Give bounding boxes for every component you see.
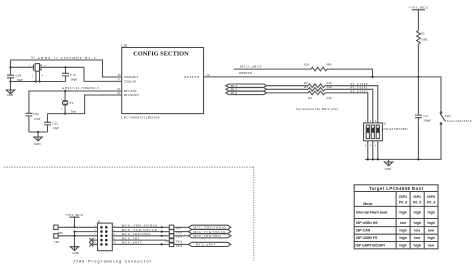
- svg-text:18pF: 18pF: [70, 77, 77, 81]
- svg-text:5: 5: [370, 145, 372, 148]
- svg-text:Internal Flash boot: Internal Flash boot: [356, 211, 388, 215]
- svg-text:Tcm: Tcm: [71, 110, 77, 114]
- wire R3 to DIP switch: [325, 89, 373, 123]
- svg-text:P0_4: P0_4: [427, 201, 435, 205]
- svg-text:TP5: TP5: [54, 240, 60, 244]
- svg-text:C20: C20: [33, 112, 39, 116]
- node MCU_TMS/SWDIO net flag: [189, 225, 231, 229]
- svg-text:high: high: [427, 211, 434, 215]
- boot mode table Target LPC54608 Boot: [354, 185, 438, 249]
- svg-text:100K: 100K: [421, 37, 429, 41]
- svg-text:2.2k: 2.2k: [326, 85, 332, 89]
- wire RTCXOUT net: Y2 bottom to MCU pin 139: [65, 95, 122, 114]
- pin 140 RTCXIN: [116, 88, 137, 93]
- svg-text:Target LPC54608 Boot: Target LPC54608 Boot: [369, 186, 424, 191]
- pin 47 XTALIN: [118, 79, 137, 84]
- svg-text:low: low: [428, 229, 434, 233]
- resistor R3 2.2k: [304, 85, 332, 91]
- pin 4 J2 MCU_TCK/SWCLK: [112, 228, 169, 232]
- svg-text:C19: C19: [70, 73, 76, 77]
- svg-text:P0_5: P0_5: [413, 201, 421, 205]
- svg-text:P0_6: P0_6: [399, 201, 407, 205]
- pin 6 J2 MCU_TDO/SWO: [112, 232, 169, 236]
- wire XTALOUT net: C18 top to MCU pin 46: [11, 60, 122, 77]
- power +3V3_MCU (JTAG): [65, 213, 84, 227]
- wire RTCXIN net: C20 to MCU pin 140: [29, 91, 122, 113]
- wire nRST to flag: [174, 243, 189, 245]
- svg-text:ISP1: ISP1: [413, 195, 421, 199]
- node +3V3 junction on pin1 wire: [73, 226, 75, 228]
- node P0_4 net flag: [226, 84, 267, 88]
- ground GND (JTAG): [70, 247, 79, 255]
- node junction TMS: [161, 226, 163, 228]
- wire ground rail C20 to C22: [29, 131, 48, 133]
- node TP9 test point: [169, 225, 181, 230]
- resistor R4 2.2k: [308, 91, 332, 100]
- wire TDO to flag: [174, 235, 189, 237]
- node P0_6 net flag: [226, 91, 267, 95]
- wire TMS to flag: [174, 226, 189, 228]
- svg-text:JTAG Programming Connector: JTAG Programming Connector: [73, 259, 152, 264]
- transistor SW2 push button 4342124023816: [440, 112, 472, 125]
- svg-text:SW2: SW2: [445, 114, 452, 118]
- ground GND (crystal section): [6, 82, 14, 98]
- wire C22 to Y2 bottom: [48, 113, 66, 115]
- svg-text:XTALIN: XTALIN: [124, 80, 137, 84]
- svg-text:12pF: 12pF: [34, 117, 41, 121]
- pin 46 XTALOUT: [118, 74, 139, 79]
- svg-text:12pF: 12pF: [52, 126, 59, 130]
- node TP6 test point: [54, 225, 64, 235]
- svg-text:low: low: [400, 221, 406, 225]
- wire TP6 to J2 pin 1: [58, 226, 97, 228]
- svg-text:Set nearest the MCU pins: Set nearest the MCU pins: [296, 107, 339, 111]
- svg-text:ABS07-32.768KHZ-T: ABS07-32.768KHZ-T: [62, 86, 99, 90]
- svg-text:2: 2: [61, 97, 63, 100]
- svg-text:GND: GND: [72, 251, 79, 255]
- resistor R2 2.2k: [304, 81, 332, 87]
- svg-text:U2B: U2B: [121, 44, 127, 48]
- svg-text:high: high: [427, 236, 434, 240]
- svg-text:Y1: Y1: [31, 56, 35, 60]
- svg-text:ISP0: ISP0: [427, 195, 435, 199]
- svg-text:MCU_nRST: MCU_nRST: [122, 241, 142, 245]
- ground GND (RTC section): [34, 132, 42, 146]
- svg-text:high: high: [414, 211, 421, 215]
- crystal Y1 ABM8-12.0000MHZ-B2-T: [29, 56, 96, 78]
- wire R20 to RESETN junction: [327, 69, 373, 77]
- node MCU_TDO/SWO net flag: [189, 234, 231, 238]
- svg-text:ISP UART/I2C/SPI: ISP UART/I2C/SPI: [356, 244, 385, 248]
- capacitor C21 100nF: [415, 114, 431, 159]
- node TP10 test point: [169, 229, 183, 234]
- node junction pin5: [73, 235, 75, 237]
- svg-text:MCU_TDO/SWO: MCU_TDO/SWO: [194, 234, 222, 238]
- wire R4 to DIP switch: [325, 93, 368, 123]
- svg-text:high: high: [399, 244, 406, 248]
- pin 9 J2 no connect: [89, 242, 97, 247]
- svg-text:R4: R4: [308, 96, 312, 100]
- crystal Y2 ABS07-32.768KHZ-T: [61, 86, 99, 114]
- pin 10 J2 MCU_nRST: [112, 241, 169, 245]
- svg-text:ISP2: ISP2: [399, 195, 407, 199]
- svg-text:R3: R3: [304, 85, 308, 89]
- svg-text:LPC54608J512BD208: LPC54608J512BD208: [121, 115, 159, 119]
- svg-text:NDA03H3SBD: NDA03H3SBD: [383, 127, 408, 131]
- svg-text:2.2k: 2.2k: [326, 96, 332, 100]
- wire dashed section border right: [253, 167, 255, 260]
- svg-text:GND: GND: [385, 167, 392, 171]
- node DIP pin 4 on rail: [377, 158, 379, 160]
- svg-text:high: high: [399, 229, 406, 233]
- node TP11 test point: [169, 234, 182, 239]
- node RTCXOUT junction at Y2 bottom: [64, 113, 66, 115]
- svg-text:high: high: [414, 244, 421, 248]
- node GND junction below C18: [9, 80, 11, 82]
- svg-text:1: 1: [61, 107, 63, 110]
- op-amp J2 JTAG connector: [98, 219, 113, 250]
- wire DIP switch pins to ground rail: [368, 141, 378, 160]
- node MCU_nRST net flag: [189, 242, 231, 246]
- svg-text:CONFIG SECTION: CONFIG SECTION: [133, 50, 189, 57]
- svg-text:low: low: [414, 229, 420, 233]
- svg-text:+3V3_MCU: +3V3_MCU: [65, 213, 84, 217]
- svg-text:4: 4: [375, 145, 377, 148]
- svg-text:high: high: [399, 236, 406, 240]
- svg-text:ISP USB1 HS: ISP USB1 HS: [356, 221, 378, 225]
- resistor R5 100K: [417, 31, 429, 44]
- wire XTALOUT branch to crystal Y1 pin 1: [11, 66, 34, 68]
- svg-text:100nF: 100nF: [423, 118, 431, 122]
- node junction TDO: [161, 235, 163, 237]
- node ground junction RTC: [37, 131, 39, 133]
- wire R2 to DIP switch: [325, 86, 378, 123]
- svg-text:4342124023816: 4342124023816: [445, 119, 472, 123]
- op-amp U2B CONFIG SECTION block (MCU LPC54608J512BD208): [121, 44, 203, 120]
- svg-text:Y2: Y2: [69, 101, 73, 105]
- svg-text:TP11: TP11: [176, 235, 183, 239]
- svg-text:S1: S1: [383, 122, 387, 126]
- pin 139 RTCXOUT: [116, 92, 139, 97]
- pin 100 RESETN: [184, 74, 210, 79]
- node DIP pin 5 on rail: [372, 158, 374, 160]
- node junction MCU_nRST on RESETN: [371, 76, 373, 78]
- svg-text:P0_6/ISP2: P0_6/ISP2: [351, 89, 369, 93]
- svg-text:6: 6: [365, 145, 367, 148]
- svg-text:GND: GND: [34, 142, 41, 146]
- node Y1 pin4 on ground rail: [38, 80, 40, 82]
- svg-text:MCU_nRST: MCU_nRST: [196, 243, 216, 247]
- wire TP5 to J2 pin 5: [58, 235, 97, 237]
- node P0_5 net flag: [226, 88, 267, 92]
- ground GND (ISP section): [384, 159, 392, 171]
- wire ISP2 row: [267, 92, 309, 94]
- node junction pin3: [73, 231, 75, 233]
- svg-text:ABM8-12.0000MHZ-B2-T: ABM8-12.0000MHZ-B2-T: [38, 56, 96, 60]
- svg-text:low: low: [414, 236, 420, 240]
- wire MCU_nRST net: [234, 68, 311, 70]
- wire ground drop JTAG: [74, 232, 76, 251]
- node MCU_TCK/SWCLK net flag: [189, 230, 231, 234]
- capacitor C20 12pF: [25, 112, 40, 132]
- node C21 on rail: [417, 158, 419, 160]
- capacitor C22 12pF: [44, 114, 59, 132]
- wire XTALIN net: Y1 pin3 to MCU pin 47: [41, 67, 122, 81]
- svg-text:RESETN: RESETN: [239, 71, 252, 75]
- svg-text:GND: GND: [7, 93, 14, 97]
- capacitor C18 18pF: [7, 74, 23, 82]
- node TP13 test point: [169, 242, 183, 248]
- svg-text:0R0: 0R0: [326, 63, 332, 67]
- svg-text:high: high: [427, 221, 434, 225]
- svg-text:2: 2: [32, 74, 34, 77]
- svg-text:XTALOUT: XTALOUT: [124, 75, 138, 79]
- power +3V3_MCU (reset pull-up): [409, 5, 429, 30]
- svg-text:Mode: Mode: [363, 202, 372, 206]
- svg-text:high: high: [414, 221, 421, 225]
- svg-text:R5: R5: [421, 31, 425, 35]
- svg-text:ISP CAN: ISP CAN: [356, 229, 371, 233]
- svg-text:C22: C22: [52, 121, 58, 125]
- wire R5 to RESETN and C21: [417, 44, 419, 115]
- node junction nRST: [161, 243, 163, 245]
- wire Y1 case pins 2,4 to ground rail: [36, 71, 40, 81]
- node RTCXIN junction at Y2 top: [64, 90, 66, 92]
- node DIP pin 6 on rail: [367, 158, 369, 160]
- pin 2 J2 MCU_TMS/SWDIO: [112, 224, 169, 228]
- node junction TCK: [161, 231, 163, 233]
- node Y1 pin2 on ground rail: [35, 80, 37, 82]
- capacitor C19 18pF: [62, 67, 77, 81]
- wire dashed section border top: [4, 166, 253, 168]
- pin 8 J2 MCU_TDI: [112, 236, 169, 241]
- wire ground rail C18 to C19: [11, 81, 66, 83]
- svg-text:+3V3_MCU: +3V3_MCU: [409, 5, 429, 9]
- svg-text:R20: R20: [304, 63, 310, 67]
- node TP12 test point: [169, 239, 183, 244]
- node junction R5 on RESETN: [417, 76, 419, 78]
- resistor R20 0R0: [304, 63, 332, 71]
- svg-text:RESETN: RESETN: [184, 75, 199, 79]
- node TP5 test point: [54, 234, 60, 244]
- svg-text:4: 4: [42, 74, 44, 77]
- node XTALOUT junction at C18: [9, 66, 11, 68]
- svg-text:RTCXOUT: RTCXOUT: [124, 93, 139, 97]
- node XTALIN junction at C19: [64, 66, 66, 68]
- svg-text:ISP USB0 FS: ISP USB0 FS: [356, 236, 378, 240]
- svg-text:high: high: [399, 211, 406, 215]
- svg-text:C21: C21: [423, 114, 429, 118]
- wire RESETN net to right column: [204, 77, 442, 112]
- wire ISP0 row: [267, 85, 309, 87]
- wire TCK to flag: [174, 231, 189, 233]
- wire SW2 to ground rail: [365, 124, 441, 159]
- wire ISP1 row: [267, 88, 309, 90]
- svg-text:P0_6: P0_6: [231, 91, 238, 95]
- transistor S1 DIP switch NDA03H3SBD: [364, 120, 409, 147]
- svg-text:low: low: [428, 244, 434, 248]
- svg-text:MCU_nRST: MCU_nRST: [240, 65, 262, 69]
- pin 7 J2 no connect: [89, 237, 97, 242]
- wire J2 pin 3 stub: [75, 231, 98, 233]
